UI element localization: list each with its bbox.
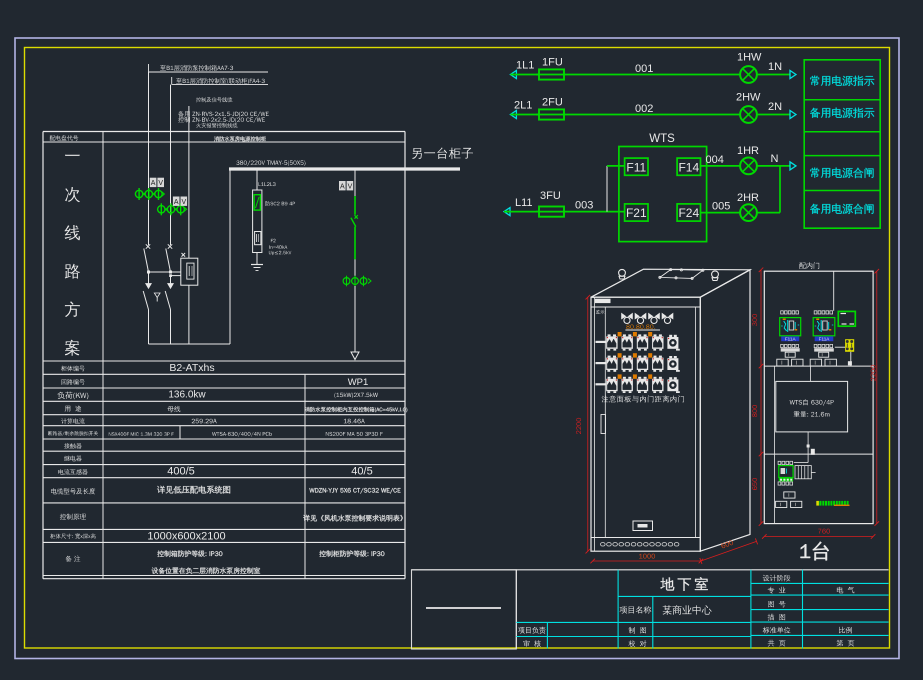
svg-text:F14: F14	[678, 160, 699, 174]
svg-text:1L1: 1L1	[516, 60, 534, 72]
svg-text:1FU: 1FU	[542, 57, 563, 69]
svg-text:1N: 1N	[768, 61, 782, 73]
svg-text:A: A	[340, 183, 345, 190]
svg-text:003: 003	[575, 200, 593, 212]
svg-text:136.0kw: 136.0kw	[168, 390, 206, 401]
svg-text:2L1: 2L1	[514, 100, 532, 112]
svg-text:F11A: F11A	[819, 337, 831, 342]
svg-text:V: V	[158, 180, 163, 187]
svg-text:2FU: 2FU	[542, 97, 563, 109]
svg-text:004: 004	[706, 154, 724, 166]
svg-text:F11: F11	[626, 160, 646, 174]
svg-text:2HR: 2HR	[737, 192, 759, 204]
svg-text:V: V	[348, 183, 353, 190]
svg-text:A: A	[174, 199, 179, 206]
svg-text:WP1: WP1	[348, 377, 369, 388]
svg-text:3FU: 3FU	[540, 190, 561, 202]
svg-text:B2-ATxhs: B2-ATxhs	[169, 362, 214, 374]
svg-text:N: N	[771, 153, 779, 165]
svg-text:A: A	[151, 180, 156, 187]
svg-text:V: V	[181, 199, 186, 206]
svg-text:2N: 2N	[768, 101, 782, 113]
svg-text:1HR: 1HR	[737, 145, 759, 157]
svg-text:002: 002	[635, 103, 653, 115]
svg-text:WTS: WTS	[649, 133, 675, 145]
svg-text:L11: L11	[515, 197, 533, 209]
svg-text:001: 001	[635, 63, 653, 75]
svg-text:F24: F24	[678, 206, 699, 220]
svg-text:1000x600x2100: 1000x600x2100	[147, 531, 225, 543]
svg-text:400/5: 400/5	[167, 466, 195, 478]
svg-text:F21: F21	[626, 206, 647, 220]
svg-text:005: 005	[712, 201, 730, 213]
svg-text:1HW: 1HW	[737, 52, 762, 64]
svg-text:F11A: F11A	[785, 337, 797, 342]
svg-text:2HW: 2HW	[736, 92, 761, 104]
svg-text:40/5: 40/5	[351, 466, 372, 478]
